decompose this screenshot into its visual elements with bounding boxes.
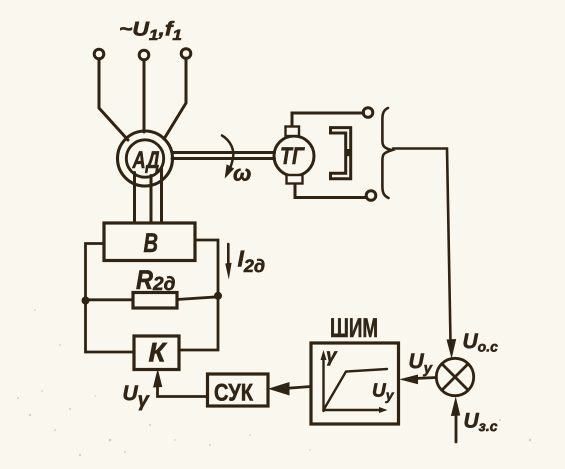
svg-text:γ: γ xyxy=(326,346,338,367)
svg-text:К: К xyxy=(149,338,168,368)
svg-text:ТГ: ТГ xyxy=(280,143,305,170)
svg-text:АД: АД xyxy=(132,147,160,174)
svg-text:В: В xyxy=(144,228,159,258)
svg-text:ШИМ: ШИМ xyxy=(330,313,378,343)
svg-text:ω: ω xyxy=(233,161,251,186)
svg-text:СУК: СУК xyxy=(214,380,253,407)
